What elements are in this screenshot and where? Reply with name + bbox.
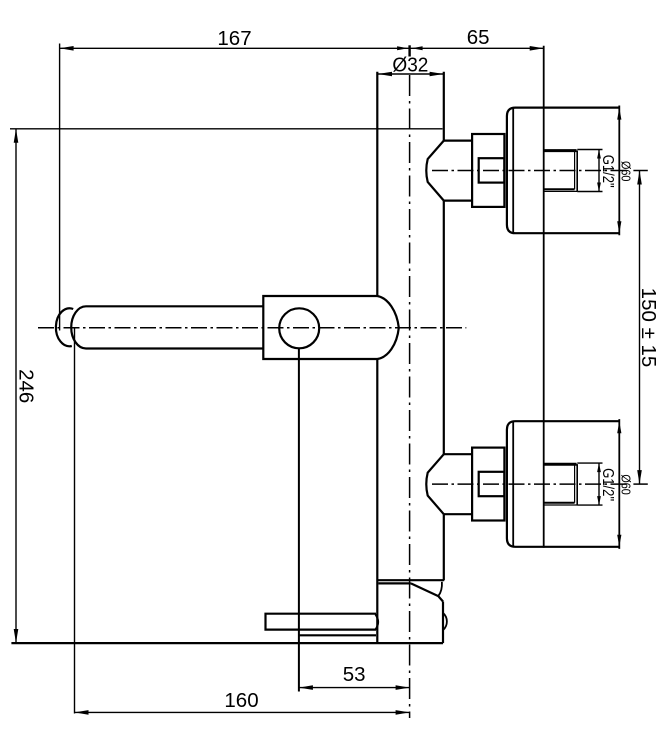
upper connector centerline [432, 170, 630, 172]
arrow diam60 upper top [617, 108, 621, 120]
arrow 150 bottom [637, 470, 642, 484]
lower nipple major [544, 463, 577, 466]
arrow 167 right [397, 46, 408, 50]
main vertical centerline [409, 75, 411, 718]
outlet inner bottom line [300, 634, 376, 636]
outlet spout [266, 614, 377, 630]
svg-text:53: 53 [343, 663, 366, 686]
lower flange [507, 421, 619, 547]
arrow 160 right [396, 710, 410, 715]
dim line 150 pm 15 [639, 171, 641, 485]
arrow 150 top [637, 171, 642, 185]
dim line diam32 [378, 73, 444, 75]
wall line [543, 46, 545, 548]
extension line left (spout tip) [59, 44, 61, 331]
arrow diam60 lower top [617, 421, 621, 433]
ext lines G1/2 lower [577, 463, 602, 505]
dim line 167 and 65 [60, 47, 544, 49]
lower nipple minor [544, 504, 578, 506]
svg-text:G1/2": G1/2" [599, 468, 616, 501]
arrow diam32 right [430, 72, 444, 77]
svg-text:246: 246 [15, 369, 38, 403]
arrow diam60 lower bottom [617, 535, 621, 547]
downspout left edge (continues as 53 extension) [298, 348, 300, 691]
arrow G12 upper top [597, 150, 601, 159]
upper flange [507, 108, 619, 234]
main horizontal centerline [38, 327, 466, 329]
upper union nut [472, 134, 504, 207]
arrow G12 upper bottom [597, 183, 601, 192]
svg-text:Ø32: Ø32 [392, 54, 428, 77]
arrow 246 top [14, 129, 19, 143]
lower connector centerline [432, 483, 630, 485]
upper nipple minor [544, 190, 578, 192]
bottom housing step [378, 582, 411, 584]
dim line diam60 upper (flange right edge) [618, 106, 620, 236]
centerline tick lower right [633, 483, 647, 485]
arrow 160 left [75, 710, 89, 715]
lower union nut [472, 448, 504, 521]
baseline [11, 642, 443, 644]
ext lines G1/2 upper [577, 150, 602, 192]
lower flange face line [512, 421, 514, 547]
svg-text:160: 160 [224, 689, 258, 712]
lower union tube [444, 454, 472, 514]
bottom housing bump [443, 613, 447, 630]
svg-text:65: 65 [467, 26, 490, 49]
bottom housing right edge [442, 602, 444, 644]
upper union tube [444, 141, 472, 201]
centerline tick top [408, 45, 410, 56]
dim line G1/2 lower [598, 463, 600, 505]
arrow diam32 left [378, 72, 392, 77]
upper union dome [426, 141, 444, 201]
dim line diam60 lower (flange right edge) [618, 419, 620, 549]
dim line 160 [75, 711, 410, 713]
pipe riser left edge [376, 72, 378, 643]
svg-text:Ø60: Ø60 [619, 161, 633, 182]
bottom housing diagonal [411, 583, 443, 601]
arrow 53 left [299, 685, 313, 690]
spout tip dome [56, 308, 73, 346]
outlet end arc [375, 614, 378, 629]
spout arm [71, 306, 263, 348]
extension line 246 top [10, 128, 443, 130]
extension line 160 left [74, 327, 76, 713]
pipe riser right edge [443, 72, 445, 581]
mixer block [263, 296, 399, 359]
arrow 53 right [396, 685, 410, 690]
lower union small boss [479, 472, 505, 496]
arrow 65 right [530, 46, 544, 51]
upper union small boss [479, 158, 505, 182]
svg-text:Ø60: Ø60 [619, 474, 633, 495]
arrow G12 lower bottom [597, 496, 601, 505]
arrow 246 bottom [14, 629, 19, 643]
handle circle [279, 308, 319, 348]
upper flange face line [512, 108, 514, 234]
arrow diam60 upper bottom [617, 221, 621, 233]
svg-text:167: 167 [217, 27, 251, 50]
arrow 167 left [60, 46, 74, 51]
bottom housing corner arc [438, 582, 442, 596]
upper nipple major [544, 149, 577, 152]
lower union dome [426, 454, 444, 514]
centerline tick upper right [633, 170, 647, 172]
svg-text:G1/2": G1/2" [599, 155, 616, 188]
svg-text:150 ± 15: 150 ± 15 [637, 288, 660, 368]
dim line 246 [15, 129, 17, 643]
pipe bottom joint [377, 579, 444, 581]
arrow 65 left [412, 46, 423, 50]
dim line G1/2 upper [598, 150, 600, 192]
arrow G12 lower top [597, 463, 601, 472]
dim line 53 [299, 687, 410, 689]
